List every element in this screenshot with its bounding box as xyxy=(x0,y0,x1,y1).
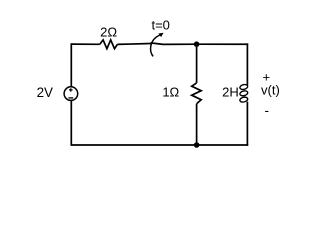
svg-text:v(t): v(t) xyxy=(261,83,280,98)
wire: top segment from switch SW1 to node A xyxy=(163,43,197,45)
voltage source V1 2V (circle with + and -) xyxy=(64,87,78,101)
label 2H for inductor L1 xyxy=(222,84,239,99)
label v(t) voltage across inductor xyxy=(261,83,280,98)
label - polarity of v(t) xyxy=(264,103,269,118)
wire: middle branch upper segment (node A down to resistor R2) xyxy=(196,44,198,83)
label t=0 for switch SW1 xyxy=(151,17,169,32)
wire: top segment from node A to top-right corner xyxy=(197,43,249,45)
svg-text:2V: 2V xyxy=(37,85,53,100)
svg-text:2Ω: 2Ω xyxy=(100,24,117,39)
wire: bottom segment from node B to bottom-right corner xyxy=(197,144,249,146)
resistor R2 1Ω (vertical zigzag on middle branch) xyxy=(192,83,202,104)
svg-text:2H: 2H xyxy=(222,84,239,99)
inductor L1 2H (coil of three tilted loops) xyxy=(239,84,248,103)
node A junction dot (top of 1Ω branch) xyxy=(194,41,200,47)
svg-text:1Ω: 1Ω xyxy=(162,85,179,100)
node B junction dot (bottom of 1Ω branch) xyxy=(194,142,200,148)
label 1Ω for resistor R2 xyxy=(162,85,179,100)
resistor R1 2Ω (horizontal zigzag on top wire) xyxy=(100,40,118,49)
label + polarity of v(t) xyxy=(263,70,271,85)
wire: middle branch lower segment (resistor R2 down to node B) xyxy=(196,104,198,145)
wire: right branch lower segment (inductor L1 down to bottom-right corner) xyxy=(246,102,248,146)
wire: right branch upper segment (top-right corner down to inductor L1) xyxy=(246,43,248,85)
switch SW1 blade xyxy=(151,43,163,44)
svg-text:t=0: t=0 xyxy=(151,17,169,32)
wire: left branch upper segment (from top-left corner down to source V1) xyxy=(70,43,72,87)
wire: top-left segment from left corner to resistor R1 xyxy=(71,43,100,45)
svg-text:-: - xyxy=(264,103,269,118)
wire: left branch lower segment (from source V1 down to bottom-left corner) xyxy=(70,100,72,146)
wire: bottom segment from bottom-left corner to node B xyxy=(71,144,196,146)
switch SW1 opening arc with arrowhead xyxy=(151,33,164,57)
label 2Ω for resistor R1 xyxy=(100,24,117,39)
label 2V for source V1 xyxy=(37,85,53,100)
wire: top segment from resistor R1 to switch SW1 xyxy=(117,43,150,46)
